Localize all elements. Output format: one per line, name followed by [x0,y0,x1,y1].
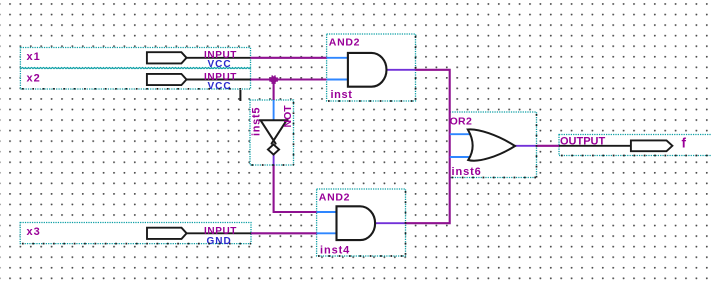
OR2 label of inst6 [450,115,473,127]
pin name label x2 [27,73,41,85]
output pin f selection box [559,135,711,156]
not-gate U3 (inst5) selection box [250,100,294,165]
AND2 label of inst4 [319,191,350,203]
svg-text:OR2: OR2 [450,115,473,127]
black grid marks on inst6 box bottom and right edges [452,114,537,178]
svg-text:f: f [682,136,687,151]
dangling black wire stub below x2 box [239,90,241,101]
wire net x3 to AND2 inst4 input 2 [251,232,317,234]
and-gate U1 (inst) body [348,53,387,87]
wire branch from x2 net down to NOT input [273,80,275,101]
AND2 label of inst [329,36,360,48]
not-gate U3 (inst5) inversion bubble [268,144,279,154]
svg-text:x3: x3 [27,226,41,238]
and-gate U2 (inst4) input stubs [317,212,338,233]
or-gate U4 (inst6) body [468,129,515,160]
or-gate U4 (inst6) output stub [515,145,537,147]
svg-text:inst: inst [331,89,353,101]
black grid marks on inst box bottom and right edges [328,36,416,101]
svg-text:x2: x2 [27,73,41,85]
svg-text:AND2: AND2 [329,36,360,48]
and-gate U1 (inst) input stubs [327,58,349,80]
inst6 label [452,166,482,178]
black grid marks on x3 box bottom edge [22,243,251,245]
pin name label f [682,136,687,151]
and-gate U1 (inst) output stub [387,69,416,71]
svg-text:inst5: inst5 [250,107,262,136]
or-gate U4 (inst6) input stubs [450,134,471,157]
GND label of x3 [207,236,232,247]
black grid marks on inst4 box bottom and right edges [318,191,406,256]
not-gate U3 (inst5) output stub [273,154,275,165]
input pin x2 symbol [147,74,251,85]
zigzag shared edge between x1 and x2 boxes [21,67,251,68]
pin name label x1 [27,51,41,63]
inst5 label (rotated) [250,107,262,136]
and-gate U2 (inst4) output stub [375,222,405,224]
wire net OR2 output to output pin f [537,145,560,147]
OUTPUT label of f [560,136,606,148]
inst4 label [320,244,350,256]
pin name label x3 [27,226,41,238]
output pin f symbol [559,140,672,151]
INPUT label of x2 [204,72,237,83]
or-gate U4 (inst6) selection box [450,112,537,178]
wire net AND outputs to OR2 inputs (vertical bus) [406,70,450,223]
VCC label of x1 [208,59,232,70]
not-gate U3 (inst5) input stub [273,100,275,121]
and-gate U1 (inst) selection box [327,34,416,101]
and-gate U2 (inst4) body [337,206,376,240]
not-gate U3 (inst5) triangle body [260,120,288,143]
input pin x2 selection box [20,68,250,89]
svg-text:GND: GND [207,236,232,247]
input pin x3 symbol [147,228,251,239]
NOT label (rotated) [282,105,294,128]
junction on x2 net [269,75,277,83]
svg-text:x1: x1 [27,51,41,63]
svg-text:OUTPUT: OUTPUT [560,136,606,148]
black grid marks on output pin box bottom edge [561,155,711,157]
wire net NOT output to AND2 inst4 input 1 [274,165,317,212]
input pin x1 symbol [147,52,251,63]
input pin x3 selection box [20,223,251,244]
svg-text:inst4: inst4 [320,244,350,256]
and-gate U2 (inst4) selection box [317,189,406,256]
INPUT label of x3 [204,226,237,237]
svg-text:VCC: VCC [208,81,232,92]
svg-text:inst6: inst6 [452,166,482,178]
VCC label of x2 [208,81,232,92]
input pin x1 selection box [20,48,250,69]
svg-text:NOT: NOT [282,105,294,128]
svg-text:AND2: AND2 [319,191,350,203]
black grid marks on inst5 box bottom and right edges [252,102,294,165]
inst label [331,89,353,101]
INPUT label of x1 [204,50,237,61]
wire net x2 to AND2 inst input 2 [251,78,327,80]
black grid marks on x2 box bottom edge [22,88,250,90]
wire net x1 to AND2 inst input 1 [251,57,327,59]
